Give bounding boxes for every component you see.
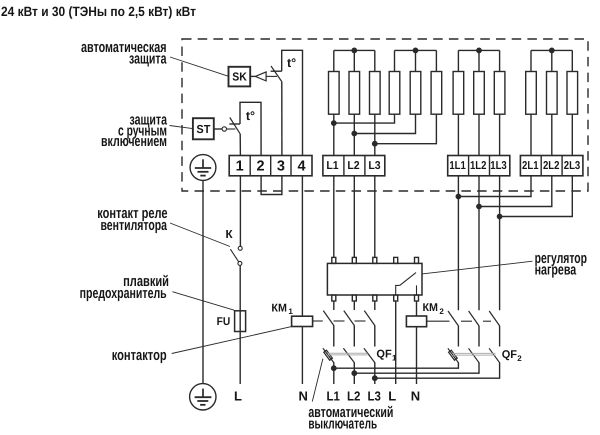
heater element EK12 — [571, 50, 573, 71]
node 1L2 junction — [477, 204, 481, 208]
KM2 mechanical link dashes — [427, 320, 450, 322]
ST fixed contact tick — [229, 123, 240, 125]
heater element EK9 — [499, 50, 501, 71]
label: автоматический выключатель — [308, 404, 393, 432]
wire 2L2 to 1L2 junction — [479, 176, 552, 207]
svg-text:QF: QF — [376, 349, 391, 361]
svg-text:нагрева: нагрева — [535, 262, 577, 279]
svg-text:t°: t° — [287, 56, 296, 70]
heater group A star bus — [334, 49, 375, 51]
heater element EK3 — [374, 50, 376, 71]
wire bus L1 to QF2 — [334, 362, 459, 368]
svg-text:L2: L2 — [347, 160, 359, 172]
svg-text:КМ: КМ — [271, 302, 287, 314]
svg-text:24 кВт и 30 (ТЭНы по 2,5 кВт): 24 кВт и 30 (ТЭНы по 2,5 кВт) кВт — [1, 4, 196, 19]
svg-text:1: 1 — [236, 159, 244, 175]
wire 1L1 down through junction — [457, 176, 459, 311]
node B star point — [413, 48, 417, 52]
contactor KM2 contact 1 — [448, 311, 459, 326]
heater element EK10 — [530, 50, 532, 71]
svg-text:1: 1 — [288, 307, 293, 316]
label: регулятор нагрева — [535, 250, 587, 279]
heater element EK11 — [551, 50, 553, 71]
label: контакт реле вентилятора — [97, 205, 167, 234]
wire 2L1 to 1L1 junction — [458, 176, 531, 197]
ST linkage with circle — [214, 128, 222, 130]
svg-text:1L1: 1L1 — [449, 160, 466, 172]
svg-text:1L3: 1L3 — [490, 160, 507, 172]
terminal block L1 L2 L3 — [323, 156, 385, 176]
thermostat t° SK: top bar — [282, 50, 303, 155]
heater element EK8 — [478, 50, 480, 71]
node bus L1 junction — [332, 366, 336, 370]
wires group C bottoms to 1L1 1L2 1L3 — [457, 114, 459, 155]
wire L1 link to group B — [334, 114, 395, 123]
heater element EK4 — [394, 50, 396, 71]
terminal block 2L1 2L2 2L3 — [520, 156, 583, 176]
KM1 mechanical link dashes — [313, 320, 323, 322]
node 1L3 junction — [497, 214, 501, 218]
wire N supply: regulator pin5 to KM2 coil — [416, 301, 418, 316]
svg-text:предохранитель: предохранитель — [80, 285, 167, 302]
svg-text:2: 2 — [517, 354, 522, 363]
callout line to contact K — [170, 223, 230, 247]
QF1 mechanical link (gray) — [328, 352, 368, 354]
svg-text:1L2: 1L2 — [470, 160, 487, 172]
node bus L2 junction — [352, 371, 356, 375]
wire KM1 coil to N — [301, 327, 303, 385]
wire L1 terminal to regulator pin1 — [333, 176, 335, 258]
circuit breaker QF1 pole 1 — [323, 348, 334, 363]
svg-text:N: N — [299, 389, 308, 404]
svg-text:L3: L3 — [368, 389, 381, 404]
svg-text:контактор: контактор — [112, 347, 167, 364]
svg-text:L3: L3 — [368, 160, 380, 172]
bottom supply labels — [327, 389, 421, 404]
svg-text:2L3: 2L3 — [564, 160, 581, 172]
pin stubs bottom of regulator — [332, 295, 336, 301]
label QF2 — [502, 349, 523, 363]
QF2 mechanism rectangle — [449, 350, 458, 360]
wires group A bottoms to L1 L2 L3 — [333, 114, 335, 155]
wire L2 terminal to regulator pin2 — [353, 176, 355, 258]
contactor KM2 contact 2 — [469, 311, 480, 326]
contactor KM1 contact 2 — [353, 301, 355, 310]
callout line to KM1 coil — [172, 327, 292, 354]
jumper wire terminals 2-3 — [261, 176, 282, 195]
label QF1 — [376, 349, 397, 363]
callout line to SK — [170, 57, 228, 76]
contactor KM2 contact 3 — [489, 311, 500, 326]
wire bus L3 to QF2 — [375, 362, 500, 378]
svg-text:включением: включением — [101, 133, 167, 150]
callout line to ST — [170, 126, 193, 129]
svg-text:защита: защита — [129, 50, 167, 67]
heater element EK7 — [457, 50, 459, 71]
wire 1L3 down through junction — [499, 176, 501, 311]
PE terminal symbol (earth in circle, top) — [190, 155, 216, 181]
circuit breaker QF2 pole 1 — [448, 348, 459, 363]
wires group D bottoms to 2L1 2L2 2L3 — [530, 114, 532, 155]
SK linkage triangle — [250, 75, 255, 77]
svg-text:3: 3 — [277, 159, 285, 175]
svg-text:L1: L1 — [327, 389, 340, 404]
svg-text:2L1: 2L1 — [522, 160, 539, 172]
circuit breaker QF2 pole 2 — [469, 348, 480, 363]
wire 2L3 to 1L3 junction — [500, 176, 573, 217]
heater group D star bus — [531, 49, 572, 51]
wire FU to L — [239, 332, 241, 385]
svg-text:L: L — [388, 389, 396, 404]
label KM1 — [271, 302, 293, 316]
svg-text:выключатель: выключатель — [308, 415, 377, 432]
svg-text:L2: L2 — [347, 389, 360, 404]
heater element EK5 — [415, 50, 417, 71]
wire L supply: regulator pin4 down — [395, 301, 397, 384]
SK contact blade — [271, 66, 282, 81]
circuit breaker QF1 pole 2 — [343, 348, 354, 363]
heater group C star bus — [458, 49, 499, 51]
enclosure dashed border — [182, 39, 588, 191]
wire KM2 coil to N — [416, 327, 418, 384]
node 1L1 junction — [456, 194, 460, 198]
contactor KM1 contact 1 — [333, 301, 335, 310]
svg-text:N: N — [411, 389, 420, 404]
svg-text:вентилятора: вентилятора — [101, 217, 168, 234]
ground (bottom earth) — [190, 384, 216, 410]
regulator internal switch — [396, 285, 400, 295]
heater element EK6 — [435, 50, 437, 71]
node L1 junction — [332, 121, 336, 125]
callout line to FU — [172, 292, 234, 311]
svg-text:2L2: 2L2 — [543, 160, 560, 172]
wire bus L2 to QF2 — [354, 362, 479, 373]
node L2 junction — [352, 131, 356, 135]
terminal block 1L1 1L2 1L3 — [448, 156, 510, 176]
wire terminal 4 down to KM1 coil — [301, 176, 303, 317]
label: плавкий предохранитель — [80, 273, 169, 302]
node C star point — [477, 48, 481, 52]
wire terminal 1 down to contact K — [239, 176, 241, 247]
op thermostat ST box — [193, 118, 214, 139]
node L3 junction — [373, 142, 377, 146]
contactor KM1 contact 3 — [374, 301, 376, 310]
svg-text:L: L — [234, 389, 242, 404]
SK fixed contact tick — [271, 70, 282, 72]
svg-text:SK: SK — [232, 71, 247, 84]
node D star point — [550, 48, 554, 52]
contact K of fan relay — [230, 246, 242, 265]
wire L3 link to group B — [375, 114, 437, 144]
wire 1L2 down through junction — [478, 176, 480, 311]
ST contact blade — [230, 118, 240, 134]
label KM2 — [423, 302, 445, 316]
wire L2 link to group B — [354, 114, 415, 133]
label: автоматическая защита — [81, 39, 167, 67]
pin stubs top of regulator — [332, 257, 336, 263]
svg-text:t°: t° — [246, 109, 255, 123]
circuit breaker QF2 pole 3 — [489, 348, 500, 363]
svg-text:КМ: КМ — [423, 302, 439, 314]
svg-text:4: 4 — [297, 159, 305, 175]
wire ST blade to terminal 1 — [239, 134, 241, 156]
thermostat t° ST: top bar — [240, 102, 261, 155]
svg-text:2: 2 — [256, 159, 264, 175]
circuit breaker QF1 pole 3 — [364, 348, 375, 363]
QF2 mechanical link (gray) — [453, 352, 496, 354]
heater element EK1 — [333, 50, 335, 71]
heater group B star bus — [395, 49, 437, 51]
heater element EK2 — [353, 50, 355, 71]
wire PE down — [202, 180, 204, 383]
contactor KM1 coil — [292, 316, 313, 326]
svg-text:L1: L1 — [326, 160, 339, 172]
callout line to QF1 — [312, 359, 323, 402]
svg-text:QF: QF — [502, 349, 517, 361]
wire contact K to fuse FU — [239, 266, 241, 311]
svg-text:2: 2 — [439, 307, 444, 316]
wire L3 terminal to regulator pin3 — [374, 176, 376, 258]
QF1 mechanism rectangle — [324, 350, 333, 360]
heating regulator A1 box — [327, 263, 422, 295]
node bus L3 junction — [373, 376, 377, 380]
wire SK blade to terminal 3 — [281, 81, 283, 155]
fuse FU — [235, 311, 246, 332]
op thermostat SK box — [229, 67, 251, 87]
svg-text:ST: ST — [196, 123, 210, 136]
terminal block XT 1-4 — [229, 156, 312, 176]
node A star point — [352, 48, 356, 52]
callout line from regulator box — [422, 261, 533, 274]
svg-text:К: К — [226, 228, 234, 241]
svg-text:FU: FU — [217, 316, 231, 328]
label: защита с ручным включением — [101, 111, 167, 150]
contactor KM2 coil — [406, 316, 426, 327]
